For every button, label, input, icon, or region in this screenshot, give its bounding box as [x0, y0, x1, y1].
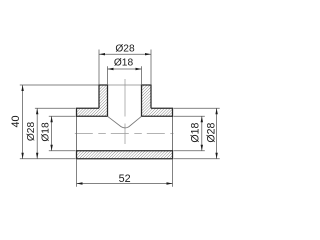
centerline vertical (branch axis)	[124, 79, 126, 144]
dim extension lines right at body for d28	[174, 107, 220, 109]
outline: body bottom	[77, 158, 173, 160]
dim line right d18	[201, 116, 203, 150]
dim line left d18	[51, 116, 53, 150]
dim extension lines left at bore for d18	[49, 115, 76, 117]
outline: left shoulder top	[77, 107, 100, 109]
body left end face	[76, 108, 78, 158]
outline: bore top edge right	[142, 115, 173, 117]
svg-text:40: 40	[10, 115, 22, 127]
dim extension lines right at bore for d18	[174, 115, 205, 117]
funnel transition branch bore to body bore	[108, 116, 142, 128]
svg-text:Ø28: Ø28	[115, 44, 135, 55]
dim extension line left at branch top for 40	[20, 84, 99, 86]
branch mouth rim thin line	[108, 84, 142, 86]
svg-text:52: 52	[119, 173, 131, 185]
hatched section: right branch wall + right shoulder (L-shape)	[142, 85, 173, 116]
dim extension line left at body bottom for 40 and d28	[20, 158, 76, 160]
svg-text:Ø18: Ø18	[40, 122, 51, 142]
dim line top d18	[108, 68, 142, 70]
outline: right shoulder top	[151, 107, 173, 109]
dim line top d28	[99, 53, 151, 55]
svg-text:Ø28: Ø28	[26, 122, 37, 142]
dim extension lines bottom for 52	[76, 160, 78, 187]
dim line left d28	[36, 108, 38, 158]
hatched section: left branch wall + left shoulder (L-shape)	[77, 85, 108, 116]
dim line right d28	[216, 108, 218, 158]
centerline horizontal (body axis)	[75, 133, 174, 135]
outline: bore top edge left	[77, 115, 108, 117]
dim extension lines top inner d18	[107, 66, 109, 84]
svg-text:Ø28: Ø28	[205, 122, 217, 142]
outline: right branch wall	[142, 85, 152, 116]
outline: bar end caps right	[172, 108, 174, 117]
dim extension line left at body top for d28	[35, 107, 76, 109]
hatched section: bottom body wall	[77, 151, 173, 159]
svg-text:Ø18: Ø18	[190, 122, 202, 142]
dim line bottom 52	[77, 183, 173, 185]
dim line left 40	[22, 85, 24, 159]
outline: left branch wall	[99, 85, 108, 116]
outline: bar end caps left	[76, 108, 78, 117]
dim extension lines top outer d28	[98, 50, 100, 85]
body right end face	[172, 108, 174, 158]
svg-text:Ø18: Ø18	[114, 58, 134, 69]
outline: bore bottom edge	[77, 150, 173, 152]
